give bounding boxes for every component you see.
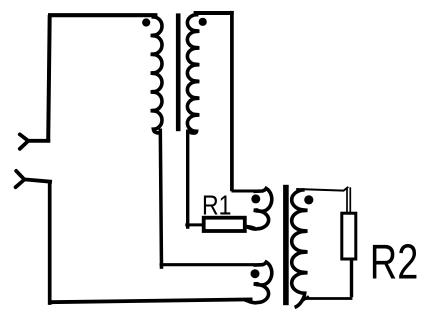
transformer T1 core <box>176 13 181 131</box>
wire: terminal B lead <box>24 179 52 181</box>
wire: top run to T1 primary <box>48 13 157 17</box>
phase dot T2 secondary <box>304 195 313 204</box>
phase dot T2 lower-left <box>251 269 260 278</box>
phase dot T1 secondary <box>199 18 207 26</box>
wire: R1 left lead <box>185 223 203 226</box>
wire: bottom return run <box>50 299 253 302</box>
svg-text:R2: R2 <box>370 236 419 290</box>
wire: left riser up <box>48 15 50 141</box>
wire: R1 right lead to T2 upper-left winding <box>246 226 256 228</box>
resistor R2 <box>342 213 356 259</box>
wire: junction hook at T2 secondary bottom <box>302 296 309 301</box>
wire: terminal A to left riser <box>27 139 51 143</box>
resistor R1 <box>204 218 245 231</box>
phase dot T2 upper-left <box>251 194 260 203</box>
wire: double drop to R2 top <box>347 187 350 212</box>
input terminal B (lower Y) <box>16 171 25 187</box>
wire: T2 secondary top lead to R2 <box>296 187 348 191</box>
wire: T1 secondary bottom lead down <box>186 130 189 229</box>
wire: T1 primary bottom lead down <box>160 129 161 269</box>
wire: run to T2 lower-left winding <box>160 263 255 266</box>
transformer T2 upper-left winding <box>246 188 272 229</box>
transformer T2 secondary winding <box>292 190 308 308</box>
input terminal A (upper Y) <box>20 134 29 148</box>
wire: left riser of terminal B <box>48 182 52 305</box>
phase dot T1 primary <box>142 18 150 26</box>
wire: R2 bottom run to T2 secondary <box>304 297 353 300</box>
transformer T2 lower-left winding <box>245 262 272 303</box>
transformer T1 secondary winding <box>187 13 199 133</box>
transformer T1 primary winding <box>151 15 162 133</box>
wire: right riser down <box>230 11 234 191</box>
svg-text:R1: R1 <box>202 190 232 221</box>
transformer T2 core <box>283 185 289 305</box>
wire: R2 bottom lead down <box>350 259 353 297</box>
wire: T1 secondary top lead <box>194 11 234 15</box>
wire: to T2 upper-left winding <box>232 190 258 193</box>
